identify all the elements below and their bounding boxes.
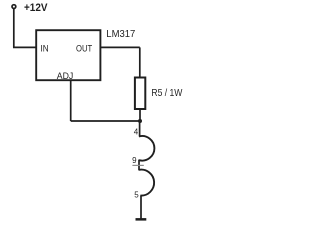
inductor L1 winding upper half [139, 136, 154, 161]
wire down to resistor [139, 47, 141, 77]
svg-text:OUT: OUT [76, 43, 92, 54]
node +12V terminal [12, 5, 16, 9]
wire ADJ pin down [70, 80, 72, 121]
wire junction down to coil [139, 121, 141, 137]
svg-text:9: 9 [132, 156, 137, 165]
svg-text:IN: IN [41, 43, 49, 54]
wire ADJ to junction [71, 120, 140, 122]
tap lead pin 9 [132, 164, 143, 166]
wire from OUT pin right [100, 46, 140, 48]
svg-text:+12V: +12V [24, 2, 48, 14]
inductor L1 winding lower half [139, 170, 154, 196]
terminal bar [136, 218, 147, 221]
svg-text:LM317: LM317 [106, 29, 135, 40]
wire into IN pin [13, 46, 36, 48]
wire from +12V terminal down [13, 9, 15, 48]
svg-text:ADJ: ADJ [57, 71, 74, 82]
regulator U1 LM317 body [36, 30, 100, 80]
svg-text:4: 4 [134, 128, 139, 137]
junction dot [138, 119, 142, 123]
resistor R5 [135, 78, 145, 110]
svg-text:R5 / 1W: R5 / 1W [151, 88, 182, 99]
svg-text:5: 5 [134, 191, 139, 200]
wire below resistor to junction [139, 110, 141, 122]
wire coil mid stem [138, 160, 140, 171]
wire coil bottom down [140, 196, 142, 219]
